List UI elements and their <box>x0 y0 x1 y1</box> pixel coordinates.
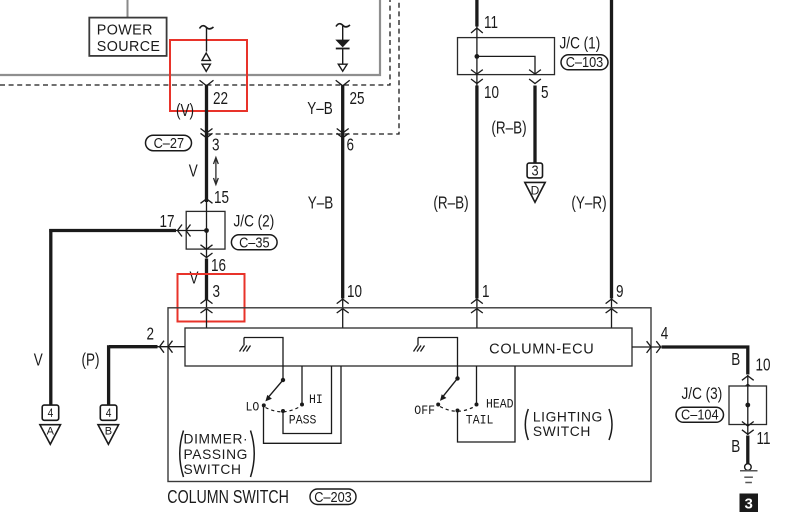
wire (P) vertical thick <box>107 345 110 405</box>
svg-text:11: 11 <box>484 13 498 32</box>
dimmer pivot dot <box>281 378 285 382</box>
svg-text:OFF: OFF <box>414 404 435 419</box>
svg-text:TAIL: TAIL <box>466 413 494 428</box>
destination triangle B <box>98 425 119 445</box>
grey border line of upper diagram area <box>0 0 380 75</box>
svg-text:C–104: C–104 <box>681 406 719 423</box>
lighting lever <box>443 378 458 396</box>
svg-text:(R–B): (R–B) <box>491 119 526 138</box>
wire thin pin3 to ECU <box>206 300 208 329</box>
svg-text:4: 4 <box>661 324 669 343</box>
svg-text:C–27: C–27 <box>154 134 185 151</box>
page marker 3 <box>740 494 759 513</box>
svg-text:6: 6 <box>347 136 355 155</box>
wire Y-B upper thin lead <box>342 26 344 40</box>
wire LO loop <box>264 366 342 443</box>
diode symbol filled triangle (Y-B) <box>335 40 350 48</box>
svg-text:B: B <box>731 350 740 369</box>
svg-text:LIGHTING: LIGHTING <box>533 410 603 425</box>
connector 4 box A <box>42 405 59 420</box>
pin 25 fork terminal <box>336 80 350 86</box>
red highlight box 1 (pin 22 connector) <box>170 40 247 111</box>
wire thin through J/C(1) <box>476 27 478 86</box>
wire HI to ECU <box>301 366 303 405</box>
J/C(3) box <box>729 386 767 425</box>
svg-text:SOURCE: SOURCE <box>97 39 161 55</box>
J/C(1) box <box>458 38 555 75</box>
connector oval C-104 <box>676 406 724 423</box>
svg-text:C–103: C–103 <box>566 53 604 70</box>
lighting ground wire <box>418 338 458 379</box>
lighting ground symbol <box>414 338 425 352</box>
pin 11 chevrons out of J/C(3) <box>742 422 754 435</box>
wire thin pin10 to ECU <box>342 300 344 329</box>
wire R-B top thick <box>475 0 478 27</box>
svg-text:B: B <box>731 437 740 456</box>
pin 22 fork terminal <box>200 80 214 86</box>
wire B horizontal thick <box>662 347 748 375</box>
lighting pivot dot <box>455 376 459 380</box>
junction dot J/C(2) <box>204 228 209 233</box>
wire left branch horizontal thick <box>49 229 176 232</box>
wire B lower thick <box>746 436 749 465</box>
wire thin ECU to pin4 <box>632 346 660 348</box>
dimmer lever <box>268 380 283 397</box>
pin 15 chevrons into J/C(2) <box>201 199 213 216</box>
connector box 3 to D <box>527 163 542 178</box>
dimmer HI contact <box>300 403 304 407</box>
connector 4 box B <box>100 405 117 420</box>
svg-text:SWITCH: SWITCH <box>184 462 242 477</box>
wire (P) horizontal thick <box>109 345 158 348</box>
svg-text:PASSING: PASSING <box>184 447 249 462</box>
wire thin through J/C(3) <box>747 375 749 435</box>
svg-text:3: 3 <box>213 282 221 301</box>
wire left branch vertical thick <box>49 229 52 405</box>
pin 9 chevrons into column switch <box>606 299 618 313</box>
svg-text:C–203: C–203 <box>314 488 352 505</box>
wire Y-R thick <box>610 0 613 299</box>
svg-text:10: 10 <box>484 83 499 102</box>
pin 2 chevrons <box>160 341 173 353</box>
svg-text:17: 17 <box>160 212 175 231</box>
svg-text:10: 10 <box>756 356 771 375</box>
svg-text:3: 3 <box>212 136 220 155</box>
wire TAIL loop <box>458 366 516 442</box>
connector C-27 crossing forks <box>201 129 213 138</box>
wire V continuation squiggle <box>200 26 214 29</box>
POWER SOURCE box <box>89 18 166 56</box>
wire HEAD to ECU <box>476 366 478 405</box>
dashed harness boundary 2 <box>207 0 399 134</box>
pin 4 chevrons out of column switch <box>647 341 661 353</box>
svg-text:COLUMN-ECU: COLUMN-ECU <box>489 342 594 358</box>
wire R-B branch thick <box>533 86 536 164</box>
diode bar <box>336 48 350 50</box>
svg-text:J/C (3): J/C (3) <box>682 385 723 404</box>
svg-text:9: 9 <box>616 282 624 301</box>
wire V thick upper segment <box>205 86 208 203</box>
svg-text:(R–B): (R–B) <box>433 194 468 213</box>
pin 17 chevrons <box>178 225 191 237</box>
svg-text:4: 4 <box>48 407 54 420</box>
red highlight box 2 (pin 3 connector) <box>178 274 245 322</box>
connector female triangle down (Y-B) <box>338 64 347 71</box>
svg-text:POWER: POWER <box>97 23 153 39</box>
svg-text:J/C (2): J/C (2) <box>234 212 275 231</box>
connector oval C-27 <box>146 134 192 151</box>
svg-text:SWITCH: SWITCH <box>533 424 591 439</box>
svg-text:COLUMN SWITCH: COLUMN SWITCH <box>167 487 289 507</box>
svg-text:1: 1 <box>482 282 490 301</box>
wire thin pin9 to ECU <box>611 300 613 329</box>
J/C(1) internal branch wire <box>477 56 535 74</box>
wire Y-B thick <box>341 86 344 299</box>
svg-text:V: V <box>189 162 198 181</box>
svg-text:3: 3 <box>531 161 538 178</box>
pin 11 chevrons into J/C(1) <box>471 28 483 45</box>
connector oval C-203 <box>310 488 356 505</box>
wire V upper thin lead <box>206 28 208 52</box>
svg-text:LO: LO <box>246 400 260 415</box>
svg-text:Y–B: Y–B <box>307 99 332 118</box>
svg-text:V: V <box>190 269 199 288</box>
svg-text:2: 2 <box>147 325 155 344</box>
svg-text:D: D <box>531 184 540 198</box>
power source feed wire <box>127 0 129 18</box>
lighting selector arc <box>440 407 475 412</box>
COLUMN-ECU box <box>185 328 632 366</box>
connector oval C-35 <box>231 233 277 250</box>
wire Y-B squiggle <box>336 24 350 27</box>
pin 16 chevrons out of J/C(2) <box>201 245 213 258</box>
svg-text:3: 3 <box>745 496 753 513</box>
svg-text:22: 22 <box>213 89 228 108</box>
junction dot J/C(1) <box>475 54 480 59</box>
svg-text:5: 5 <box>541 83 549 102</box>
dimmer selector arc <box>266 407 301 412</box>
COLUMN SWITCH outer box <box>168 308 651 482</box>
pin 10 chevrons into J/C(3) <box>742 376 754 389</box>
pin 1 chevrons into column switch <box>471 299 483 313</box>
wire thin pin1 to ECU <box>476 300 478 329</box>
connector crossing 6 forks <box>337 129 349 138</box>
connector male triangle up (V wire) <box>202 53 210 60</box>
svg-text:(P): (P) <box>82 351 100 370</box>
svg-text:HI: HI <box>309 392 323 407</box>
dashed harness boundary 1 <box>0 0 390 85</box>
svg-text:C–35: C–35 <box>239 233 270 250</box>
svg-text:HEAD: HEAD <box>486 397 514 412</box>
connector female triangle down (V wire) <box>202 64 210 71</box>
wire V thick middle segment <box>205 259 208 301</box>
diode lower lead <box>342 49 344 65</box>
svg-text:11: 11 <box>757 429 771 448</box>
pin 5 chevrons out of J/C(1) <box>529 70 541 84</box>
wire thin through J/C(2) <box>206 202 208 258</box>
earth ground bars <box>740 471 758 483</box>
wire thin pin2 to ECU <box>158 346 186 348</box>
svg-text:Y–B: Y–B <box>308 194 333 213</box>
svg-text:25: 25 <box>350 89 365 108</box>
dimmer ground wire <box>244 338 283 381</box>
svg-text:DIMMER·: DIMMER· <box>184 432 249 447</box>
pin 10 chevrons out of J/C(1) <box>471 70 483 84</box>
wire PASS loop <box>283 366 332 434</box>
svg-text:(V): (V) <box>176 101 194 120</box>
svg-text:10: 10 <box>347 282 362 301</box>
junction dot J/C(3) <box>745 403 750 408</box>
svg-text:J/C (1): J/C (1) <box>560 34 601 53</box>
wire from J/C(2) left thin <box>175 230 207 232</box>
double arrow symbol <box>214 158 219 185</box>
destination triangle D <box>525 182 545 202</box>
svg-text:4: 4 <box>106 407 112 420</box>
connector oval C-103 <box>561 53 608 70</box>
svg-text:A: A <box>47 426 55 438</box>
pin 3 chevrons into column switch <box>201 299 213 313</box>
lighting OFF contact <box>436 403 440 407</box>
lighting switch label parens <box>525 409 528 440</box>
J/C(2) box <box>186 211 225 249</box>
destination triangle A <box>40 425 61 445</box>
wire R-B main thick <box>475 86 478 299</box>
pin 10 chevrons into column switch <box>337 299 349 313</box>
dimmer ground symbol <box>240 338 251 352</box>
svg-text:PASS: PASS <box>289 413 317 428</box>
lighting HEAD contact <box>475 403 479 407</box>
dimmer LO contact <box>262 403 266 407</box>
earth ground circle <box>745 464 752 471</box>
svg-text:16: 16 <box>211 256 226 275</box>
dimmer PASS contact <box>281 409 285 413</box>
svg-text:B: B <box>105 426 112 438</box>
dimmer-passing switch label parens <box>180 431 184 478</box>
lighting TAIL contact <box>456 409 460 413</box>
svg-text:(Y–R): (Y–R) <box>571 194 606 213</box>
svg-text:V: V <box>34 351 43 370</box>
svg-text:15: 15 <box>214 188 229 207</box>
